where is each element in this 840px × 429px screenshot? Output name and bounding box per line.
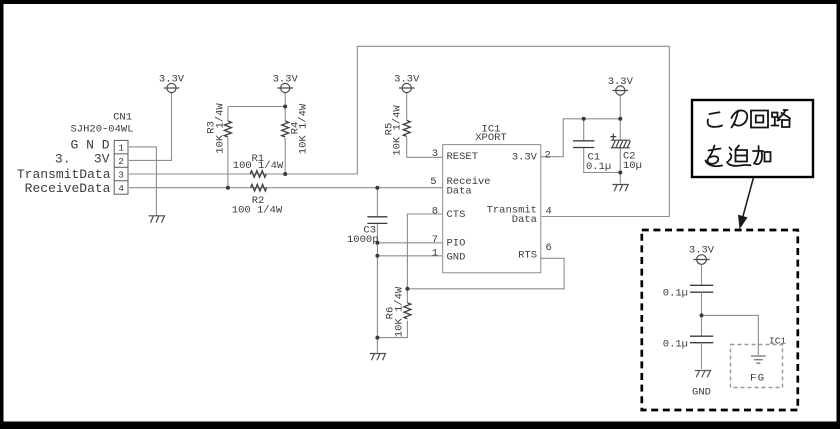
capacitor C3 [367,217,387,224]
resistor R5 [403,120,410,136]
svg-text:7: 7 [432,234,438,246]
node C3/GND [375,254,379,258]
capacitor 0.1u (top, in box) [690,285,713,292]
svg-text:6: 6 [546,242,552,254]
svg-text:3: 3 [432,148,438,160]
svg-text:GND: GND [447,252,466,264]
svg-text:G N D: G N D [70,138,109,153]
svg-text:100 1/4W: 100 1/4W [233,160,284,172]
svg-text:Data: Data [447,186,472,198]
wire: C3 net vertical [376,188,378,217]
svg-text:3.3V: 3.3V [159,74,185,86]
svg-text:5: 5 [430,176,436,188]
svg-text:1000p: 1000p [347,234,379,246]
wire: P4 drop [619,95,621,119]
svg-text:10K 1/4W: 10K 1/4W [214,103,226,154]
svg-text:RTS: RTS [518,250,537,262]
3.3V power symbol P3 [399,83,415,92]
node C2 bottom [618,171,622,175]
svg-text:PIO: PIO [447,238,466,250]
node C1 top [582,117,586,121]
capacitor C2 (polarized) [610,134,630,148]
svg-text:SJH20-04WL: SJH20-04WL [70,124,133,136]
wire: CTS down to R6 [407,214,442,303]
wire: IC pin2 3.3V to C1/C2/P4 rail [541,119,621,157]
wire: cap1 to junction to cap2 [701,292,703,336]
svg-text:10K 1/4W: 10K 1/4W [297,103,309,154]
callout box [692,100,813,177]
wire: TransmitData net (CN1 pin3 over the top to IC pin4) [129,46,669,216]
node R4/TransmitData [283,172,287,176]
callout text この回路 (drawn strokes) [708,110,790,128]
connector CN1 [114,140,128,194]
svg-text:IC1: IC1 [769,336,786,347]
resistor R4 [282,121,289,137]
svg-text:100 1/4W: 100 1/4W [232,205,283,217]
svg-text:RESET: RESET [447,151,479,163]
node C3/PIO [375,241,379,245]
node R6 bottom [375,336,379,340]
wire: RTS return to R6 line [407,258,564,289]
3.3V power symbol P2 [277,83,293,92]
wire: ReceiveData net (CN1 pin4 to IC pin5) [129,187,443,189]
ground under R6/C3 net [370,354,386,361]
callout text を追加 (drawn strokes) [706,146,771,167]
wire: C1 leads [583,119,585,141]
svg-text:FG: FG [750,373,766,385]
FG dashed box [731,345,783,388]
ground under C2 [612,185,628,192]
wire: CN1 pin2 to 3.3V P1 [129,93,172,161]
wire: P5 to cap1 [701,264,703,285]
svg-text:3: 3 [118,170,124,181]
ground in dashed box [695,371,711,378]
svg-text:3.3V: 3.3V [273,74,299,86]
dashed addition box [642,230,798,410]
wire: GND stub [377,255,442,257]
svg-text:3.3V: 3.3V [394,74,420,86]
svg-text:ReceiveData: ReceiveData [25,181,111,196]
node junction in box [700,313,704,317]
wire: C2 leads to ground [619,119,621,140]
3.3V power symbol P1 [164,83,180,92]
svg-text:10K 1/4W: 10K 1/4W [393,286,405,337]
svg-text:4: 4 [546,205,552,217]
svg-text:CTS: CTS [447,209,466,221]
node C3/ReceiveData [375,186,379,190]
resistor R6 [404,303,411,319]
svg-text:0.1µ: 0.1µ [663,288,688,300]
wire: R5 vertical from P3 to RESET [406,93,408,121]
IC1 XPORT box [443,145,541,273]
svg-text:10K 1/4W: 10K 1/4W [391,105,403,156]
svg-text:3.3V: 3.3V [608,76,634,88]
ground under CN1 [149,216,165,223]
3.3V power symbol P4 [612,86,628,95]
svg-text:TransmitData: TransmitData [17,167,111,182]
svg-text:2: 2 [118,156,124,167]
svg-text:8: 8 [432,205,438,217]
wire: CN1 pin1 GND to ground [129,147,156,216]
wire: R4 vertical from P2 [284,93,286,121]
node R3/ReceiveData [226,186,230,190]
svg-text:1: 1 [118,143,124,154]
resistor R1 [250,171,266,178]
3.3V power symbol P5 (in dashed box) [693,255,709,265]
node R3top/R4 [283,105,287,109]
resistor R3 [224,121,231,137]
resistor R2 [251,184,267,191]
wire: junction to FG [702,315,759,355]
svg-text:1: 1 [432,247,438,259]
svg-text:GND: GND [692,387,711,399]
node C2 top [618,117,622,121]
svg-text:10µ: 10µ [623,160,642,172]
wire: R3 top link to R4 [228,106,285,108]
arrow from callout to dashed box [743,178,754,219]
wire: cap2 to ground [701,343,703,369]
earth ground in FG box [751,356,766,363]
svg-text:2: 2 [545,150,551,162]
svg-text:0.1µ: 0.1µ [663,339,688,351]
svg-text:3.3V: 3.3V [689,245,715,257]
svg-text:3.3V: 3.3V [512,152,538,164]
node RTS/R6 [405,287,409,291]
svg-text:4: 4 [118,183,124,194]
wire: R6 bottom to C3 net [377,321,407,338]
capacitor C1 [573,141,594,148]
svg-text:3. 3V: 3. 3V [55,152,110,167]
wire: PIO stub [377,242,442,244]
svg-text:CN1: CN1 [113,112,132,124]
svg-text:XPORT: XPORT [475,132,507,144]
svg-text:0.1µ: 0.1µ [586,161,611,173]
svg-text:Data: Data [512,214,537,226]
wire: R3 vertical [227,107,229,122]
capacitor 0.1u (bottom, in box) [690,336,713,343]
